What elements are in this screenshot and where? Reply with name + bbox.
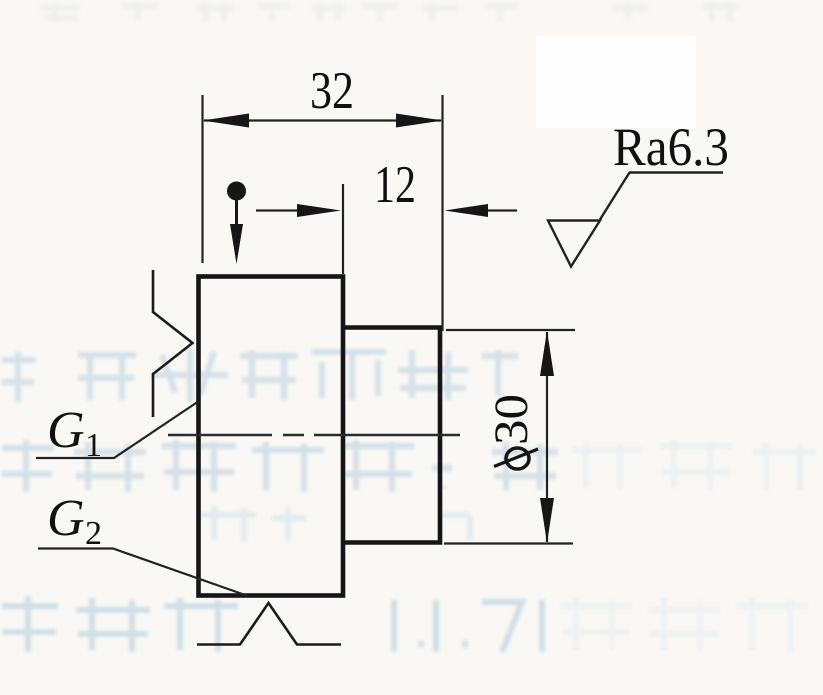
surface roughness symbol: slanted leg: [600, 173, 630, 220]
dimension 32: left arrowhead: [203, 114, 250, 128]
dimension phi30: bottom arrowhead: [540, 498, 554, 543]
clamping symbol: arrowhead: [230, 224, 243, 264]
surface roughness symbol: triangle: [548, 221, 600, 267]
bleed-through text row top: [40, 2, 740, 22]
dimension phi30: dimension line: [546, 332, 548, 542]
locating symbol on left face: [153, 270, 193, 417]
dimension phi30: bottom extension line: [444, 542, 573, 544]
bleed-through text row middle 3: [200, 506, 470, 542]
surface roughness symbol: top bar: [629, 171, 723, 173]
part outline: small cylinder: [343, 328, 440, 543]
bleed-through text bottom right (very faint): [560, 598, 808, 652]
dimension 32: dimension line: [204, 119, 441, 121]
clamping symbol: dot: [227, 182, 246, 201]
svg-text:32: 32: [310, 62, 354, 120]
svg-text:2: 2: [85, 515, 102, 552]
bleed-through text row middle 2: [2, 440, 558, 492]
dimension phi30: top extension line: [446, 329, 575, 331]
dimension 12: left dimension line with arrow: [256, 209, 320, 211]
dimension 32: right extension line: [441, 95, 443, 331]
svg-text:G: G: [47, 490, 85, 547]
part outline: large cylinder: [199, 277, 344, 596]
dimension 12: extension line above step: [342, 184, 344, 274]
locating symbol on bottom face: [197, 603, 341, 645]
bleed-through text row bottom: [2, 596, 542, 652]
leader G1: [36, 401, 199, 458]
bleed-through text row middle 1: [2, 348, 518, 402]
clamping symbol: stem: [235, 196, 238, 228]
centerline (axis): [168, 434, 460, 436]
svg-text:30: 30: [485, 394, 538, 445]
dimension phi30: value label (rotated): [485, 394, 538, 469]
leader G2: [38, 549, 248, 597]
dimension 32: left extension line: [201, 95, 203, 263]
svg-text:G: G: [47, 402, 85, 459]
svg-text:Ra6.3: Ra6.3: [613, 117, 729, 177]
dimension 12: right dimension line with arrow: [460, 209, 517, 211]
dimension 32: right arrowhead: [396, 114, 443, 128]
dimension phi30: top arrowhead: [540, 331, 554, 377]
svg-text:12: 12: [374, 156, 416, 214]
